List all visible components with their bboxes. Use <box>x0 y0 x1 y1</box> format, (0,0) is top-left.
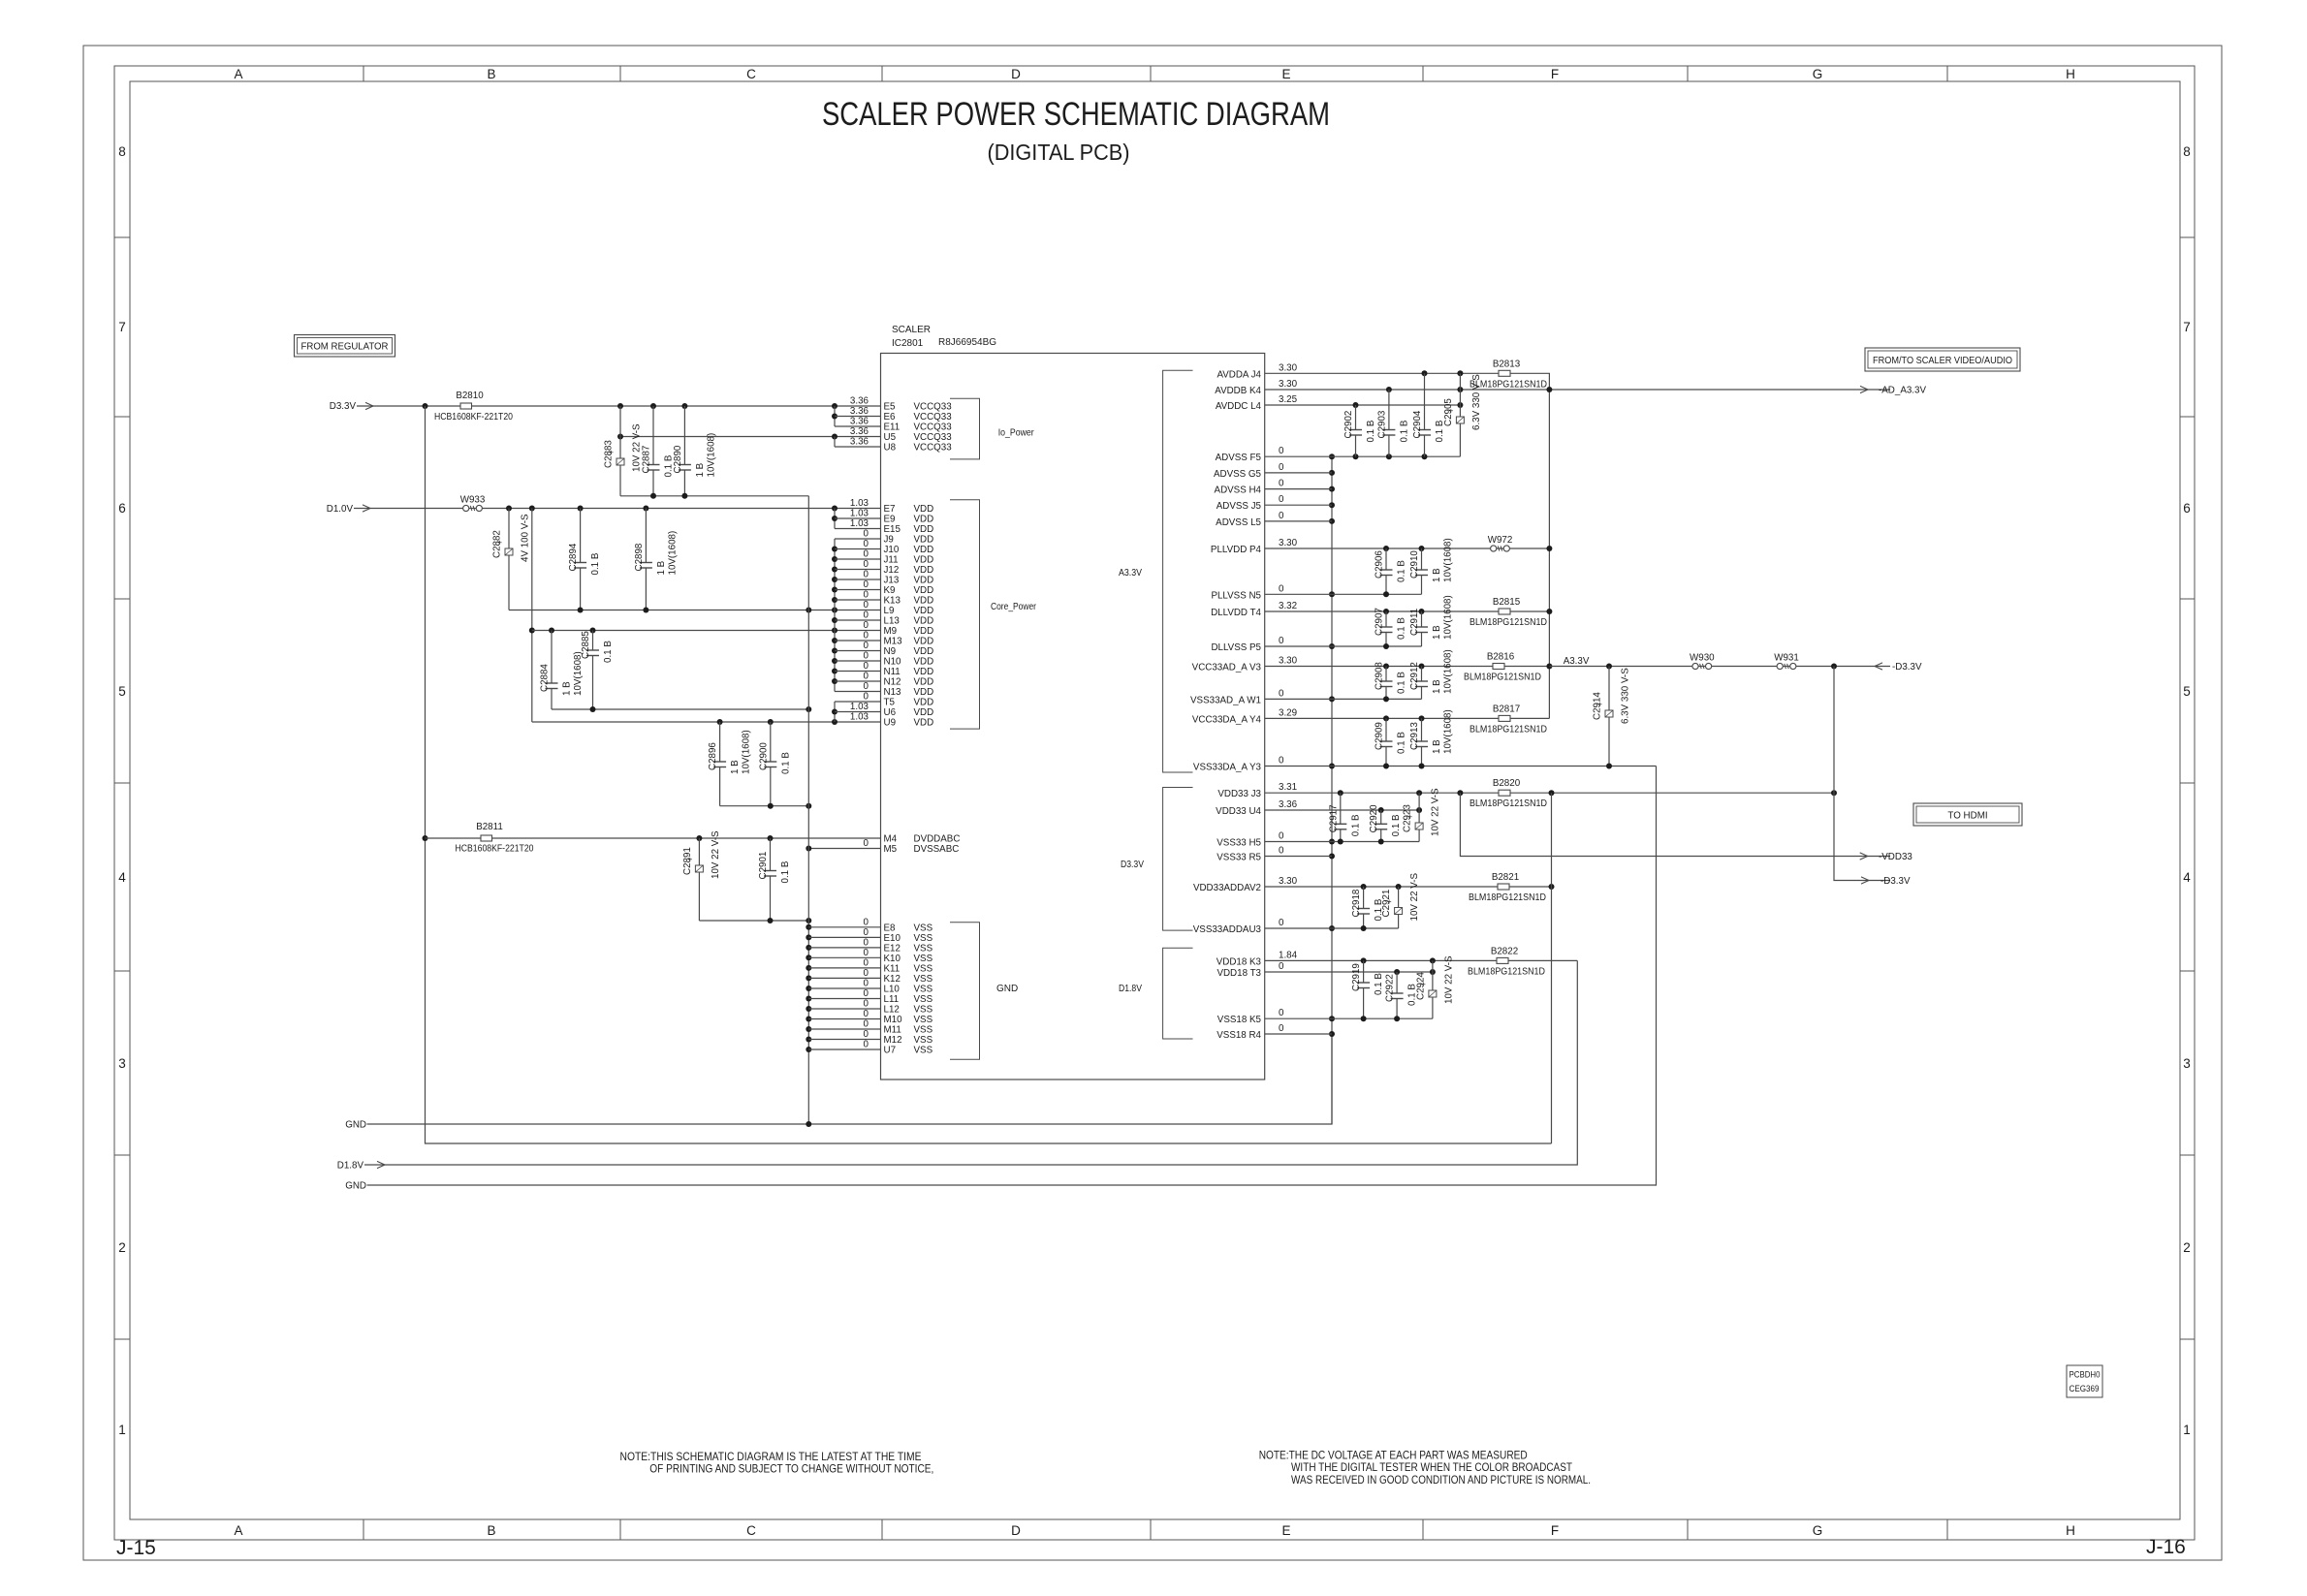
svg-text:4V 100 V-S: 4V 100 V-S <box>521 514 531 562</box>
pin group bracket Core_Power <box>950 500 980 729</box>
svg-text:0: 0 <box>864 999 869 1010</box>
svg-text:VDD: VDD <box>914 535 934 546</box>
svg-text:1 B: 1 B <box>1432 739 1442 754</box>
svg-text:2: 2 <box>118 1240 126 1255</box>
junction VSS33 R5 / VSS bus <box>1329 854 1335 860</box>
wire VDD18 T3 row <box>1265 971 1433 973</box>
svg-text:C2918: C2918 <box>1351 889 1362 917</box>
svg-text:0: 0 <box>864 672 869 682</box>
junction C2901 top <box>768 835 774 841</box>
wire E5-E6-E11 jog <box>834 406 836 426</box>
svg-text:CEG369: CEG369 <box>2070 1384 2100 1393</box>
junction J3 / D3.3V feed vertical <box>1831 790 1837 796</box>
junction C2917 top <box>1338 790 1343 796</box>
junction M12 / GND vertical <box>806 1037 811 1043</box>
junction M10 / GND vertical <box>806 1017 811 1022</box>
svg-text:E10: E10 <box>884 933 901 944</box>
svg-text:J13: J13 <box>884 576 900 586</box>
capacitor C2908 0.1 B <box>1385 667 1387 682</box>
junction C2900 bottom <box>768 803 774 809</box>
svg-text:C2891: C2891 <box>682 847 693 875</box>
junction C2924 / T3 <box>1430 969 1436 975</box>
ferrite bead B2813 <box>1499 370 1510 376</box>
svg-text:3.30: 3.30 <box>1279 538 1298 548</box>
svg-text:10V(1608): 10V(1608) <box>706 433 716 478</box>
svg-text:0: 0 <box>864 917 869 927</box>
svg-text:3.36: 3.36 <box>850 396 869 407</box>
svg-text:C2887: C2887 <box>642 446 652 474</box>
svg-text:VSS: VSS <box>914 963 933 974</box>
svg-text:BLM18PG121SN1D: BLM18PG121SN1D <box>1470 798 1547 809</box>
svg-text:C2919: C2919 <box>1351 963 1362 991</box>
capacitor C2890 1 B 10V(1608) <box>683 406 685 465</box>
svg-text:A3.3V: A3.3V <box>1564 656 1590 667</box>
junction E5 bus <box>832 403 837 409</box>
wire to pin E8 <box>808 926 880 928</box>
wire VDD33 tap to arrow <box>1460 793 1890 856</box>
junction C2911 top <box>1419 609 1425 614</box>
svg-text:0: 0 <box>1279 446 1284 456</box>
svg-text:10V 22 V-S: 10V 22 V-S <box>1409 872 1420 921</box>
junction E10 / GND vertical <box>806 934 811 940</box>
svg-text:W972: W972 <box>1488 535 1513 546</box>
wire to pin M11 <box>808 1028 880 1030</box>
svg-text:VDD: VDD <box>914 677 934 688</box>
junction L11 / GND vertical <box>806 996 811 1002</box>
svg-text:10V(1608): 10V(1608) <box>667 531 678 576</box>
svg-text:F: F <box>1551 67 1559 81</box>
junction C2898 top <box>643 506 648 512</box>
junction C2922 top <box>1394 969 1400 975</box>
svg-text:VDD33 J3: VDD33 J3 <box>1217 789 1261 799</box>
junction N10 <box>832 658 837 664</box>
svg-text:C2896: C2896 <box>708 742 718 770</box>
svg-text:6.3V 330 V-S: 6.3V 330 V-S <box>1471 374 1482 430</box>
svg-text:C2914: C2914 <box>1593 692 1603 720</box>
junction E6 <box>832 414 837 420</box>
svg-text:0.1 B: 0.1 B <box>590 552 601 575</box>
junction C2883 top <box>617 403 623 409</box>
junction D3.3V / vertical feeder <box>423 403 428 409</box>
svg-text:C2882: C2882 <box>492 530 503 558</box>
junction U7 / GND vertical <box>806 1047 811 1052</box>
junction C2919 bottom <box>1361 1016 1367 1021</box>
capacitor C2898 1 B 10V(1608) <box>645 509 647 563</box>
junction C2891 top <box>696 835 702 841</box>
junction ADVSS G5 / VSS bus <box>1329 470 1335 476</box>
wire to pin E11 <box>835 425 881 427</box>
svg-text:0: 0 <box>1279 1023 1284 1034</box>
svg-text:0.1 B: 0.1 B <box>1374 973 1384 995</box>
svg-text:HCB1608KF-221T20: HCB1608KF-221T20 <box>434 412 513 422</box>
svg-text:1 B: 1 B <box>656 560 667 575</box>
svg-text:C: C <box>746 67 756 81</box>
capacitor C2906 0.1 B <box>1385 548 1387 570</box>
svg-text:M11: M11 <box>884 1025 901 1036</box>
svg-text:BLM18PG121SN1D: BLM18PG121SN1D <box>1468 966 1545 977</box>
svg-text:VCCQ33: VCCQ33 <box>914 412 953 422</box>
svg-text:C2906: C2906 <box>1375 550 1385 579</box>
svg-text:C2903: C2903 <box>1376 410 1387 438</box>
svg-text:C2905: C2905 <box>1443 398 1454 426</box>
svg-text:5: 5 <box>118 684 126 699</box>
svg-text:VCCQ33: VCCQ33 <box>914 443 953 454</box>
junction K13 <box>832 597 837 603</box>
svg-text:1 B: 1 B <box>1432 679 1442 694</box>
wire to pin J10 <box>835 548 881 550</box>
junction C2917 bottom <box>1338 839 1343 845</box>
svg-text:VSS: VSS <box>914 974 933 985</box>
svg-text:VSS33ADDAU3: VSS33ADDAU3 <box>1193 924 1262 935</box>
svg-text:D1.0V: D1.0V <box>327 504 354 515</box>
svg-text:0: 0 <box>1279 831 1284 842</box>
capacitor C2913 1 B 10V(1608) <box>1421 718 1423 741</box>
svg-text:VSS18 R4: VSS18 R4 <box>1217 1030 1261 1041</box>
svg-text:VDD: VDD <box>914 504 934 515</box>
svg-text:VDD: VDD <box>914 657 934 668</box>
junction C2904 bottom <box>1422 454 1428 459</box>
junction L9 bus <box>832 608 837 613</box>
junction C2914 top <box>1606 664 1612 670</box>
wire to pin M10 <box>808 1018 880 1020</box>
svg-text:T5: T5 <box>884 698 896 708</box>
capacitor C2921 (electrolytic 10V 22 V-S) <box>1398 887 1400 908</box>
junction C2906 top <box>1383 546 1389 551</box>
svg-text:GND: GND <box>345 1120 366 1131</box>
junction C2902 bottom <box>1353 454 1359 459</box>
svg-text:N13: N13 <box>884 687 902 698</box>
junction C2920 bottom <box>1378 839 1384 845</box>
junction VSS18 R4 / VSS bus <box>1329 1031 1335 1037</box>
svg-text:D3.3V: D3.3V <box>1121 859 1144 870</box>
wire to pin N13 <box>835 691 881 693</box>
svg-text:VSS33 H5: VSS33 H5 <box>1217 838 1261 849</box>
wire GND rail 2 <box>367 767 1657 1186</box>
svg-text:1 B: 1 B <box>730 760 741 774</box>
junction C2924 top <box>1430 957 1436 963</box>
svg-text:7: 7 <box>2183 320 2191 334</box>
junction C2896 top <box>717 719 723 725</box>
wire VDD33 U4 row <box>1265 809 1419 811</box>
svg-text:B2815: B2815 <box>1493 597 1521 608</box>
junction N12 <box>832 678 837 684</box>
junction C2894 top <box>578 506 584 512</box>
svg-text:C2923: C2923 <box>1403 804 1413 832</box>
wire right VSS bus vertical <box>1331 456 1333 1124</box>
svg-text:3.36: 3.36 <box>850 417 869 427</box>
svg-text:0.1 B: 0.1 B <box>1391 814 1402 836</box>
wire to pin U6 <box>835 711 881 713</box>
wire M9 rail to IC <box>532 630 881 632</box>
junction C2907 bottom <box>1383 643 1389 649</box>
junction C2898 bottom <box>643 608 648 613</box>
svg-text:SCALER: SCALER <box>892 325 931 335</box>
svg-text:VSS: VSS <box>914 1015 933 1025</box>
junction C2887 top <box>650 403 656 409</box>
wire VCC33AD_A V3 row <box>1265 666 1550 668</box>
wire to pin J13 <box>835 579 881 580</box>
junction A3.3V node <box>1546 664 1552 670</box>
svg-text:R8J66954BG: R8J66954BG <box>938 337 996 348</box>
svg-text:10V(1608): 10V(1608) <box>1443 649 1454 694</box>
svg-text:3: 3 <box>2183 1056 2191 1071</box>
wire AVDDC L4 row <box>1265 404 1461 406</box>
wire to pin L12 <box>808 1008 880 1010</box>
svg-text:0: 0 <box>1279 494 1284 505</box>
junction C2887 bottom <box>650 493 656 499</box>
svg-text:VSS: VSS <box>914 994 933 1005</box>
svg-text:3.30: 3.30 <box>1279 379 1298 390</box>
wire to pin E6 <box>835 416 881 418</box>
junction D3.3V feed vertical <box>1831 664 1837 670</box>
svg-text:N12: N12 <box>884 677 901 688</box>
svg-text:VSS: VSS <box>914 954 933 964</box>
svg-text:J-15: J-15 <box>116 1537 156 1559</box>
svg-text:0: 0 <box>1279 479 1284 489</box>
svg-text:0: 0 <box>864 579 869 590</box>
svg-text:WITH THE DIGITAL TESTER WHEN T: WITH THE DIGITAL TESTER WHEN THE COLOR B… <box>1291 1460 1572 1474</box>
wire left GND vertical <box>807 496 809 1124</box>
svg-text:VDD33 U4: VDD33 U4 <box>1216 806 1261 817</box>
capacitor C2924 (electrolytic 10V 22 V-S) <box>1432 960 1434 990</box>
svg-text:C2894: C2894 <box>568 543 579 571</box>
svg-text:VCC33DA_A Y4: VCC33DA_A Y4 <box>1192 714 1262 725</box>
svg-text:1.03: 1.03 <box>850 702 869 712</box>
svg-text:OF PRINTING AND SUBJECT TO CHA: OF PRINTING AND SUBJECT TO CHANGE WITHOU… <box>649 1462 933 1476</box>
svg-text:10V(1608): 10V(1608) <box>1443 709 1454 754</box>
capacitor C2900 0.1 B <box>770 722 772 762</box>
ferrite bead B2816 <box>1493 664 1504 670</box>
svg-text:L10: L10 <box>884 985 901 995</box>
right pin group bracket A3.3V <box>1163 370 1193 772</box>
svg-text:AVDDA J4: AVDDA J4 <box>1217 369 1261 380</box>
capacitor C2919 0.1 B <box>1363 960 1365 983</box>
junction C2919 top <box>1361 957 1367 963</box>
jumper W931 <box>1777 663 1783 669</box>
ferrite bead B2815 <box>1499 609 1510 614</box>
svg-text:0.1 B: 0.1 B <box>780 752 791 774</box>
svg-text:AVDDB K4: AVDDB K4 <box>1215 386 1261 396</box>
svg-text:VDD: VDD <box>914 515 934 525</box>
svg-text:C2921: C2921 <box>1381 890 1392 918</box>
svg-text:2: 2 <box>2183 1240 2191 1255</box>
pin group bracket GND <box>950 923 980 1060</box>
capacitor C2923 (electrolytic 10V 22 V-S) <box>1418 793 1420 823</box>
svg-text:3.30: 3.30 <box>1279 362 1298 373</box>
svg-text:C2900: C2900 <box>758 742 769 770</box>
resistor B2811 <box>481 835 492 841</box>
svg-text:L12: L12 <box>884 1005 900 1016</box>
svg-text:L9: L9 <box>884 606 895 616</box>
wire to pin E12 <box>808 947 880 949</box>
svg-text:0: 0 <box>864 692 869 703</box>
wire VSS33ADDAU3 row <box>1265 927 1399 929</box>
svg-text:1 B: 1 B <box>1432 568 1442 582</box>
svg-text:D1.8V: D1.8V <box>1119 983 1142 994</box>
wire E7-E9-E15 jog <box>834 509 836 529</box>
svg-text:HCB1608KF-221T20: HCB1608KF-221T20 <box>456 844 534 855</box>
svg-text:B2822: B2822 <box>1491 946 1518 956</box>
wire cap group5 ground rail <box>699 920 808 922</box>
svg-text:0: 0 <box>864 1009 869 1019</box>
junction B2811 row <box>423 835 428 841</box>
svg-text:0: 0 <box>1279 918 1284 928</box>
junction C2913 bottom <box>1419 764 1425 769</box>
wire DLLVSS P5 row <box>1265 645 1422 647</box>
svg-text:K13: K13 <box>884 596 901 607</box>
capacitor C2907 0.1 B <box>1385 611 1387 627</box>
wire VDD33ADDAV2 row <box>1265 886 1552 888</box>
svg-text:VDD: VDD <box>914 667 934 677</box>
svg-text:0: 0 <box>864 559 869 570</box>
svg-text:E6: E6 <box>884 412 897 422</box>
wire VSS18 R4 stub <box>1265 1033 1332 1035</box>
svg-text:ADVSS G5: ADVSS G5 <box>1214 469 1262 480</box>
svg-text:6: 6 <box>2183 501 2191 516</box>
svg-text:VCCQ33: VCCQ33 <box>914 402 953 413</box>
wire PLLVSS N5 row <box>1265 593 1422 595</box>
svg-text:VDD: VDD <box>914 524 934 535</box>
svg-text:0: 0 <box>864 529 869 540</box>
junction C2885 top <box>590 628 596 634</box>
svg-text:0: 0 <box>864 1040 869 1050</box>
junction J12 <box>832 567 837 573</box>
svg-text:DLLVDD T4: DLLVDD T4 <box>1211 608 1261 618</box>
junction C2890 bottom <box>681 493 687 499</box>
svg-text:D: D <box>1011 1523 1021 1538</box>
junction B2815 out / bead vertical <box>1546 609 1552 614</box>
svg-text:3.36: 3.36 <box>850 406 869 417</box>
wire to pin K13 <box>835 599 881 601</box>
junction E8 / GND vertical <box>806 924 811 930</box>
svg-text:DVDDABC: DVDDABC <box>914 834 961 845</box>
svg-text:VDD: VDD <box>914 626 934 637</box>
svg-text:0: 0 <box>1279 756 1284 767</box>
junction C2921 top <box>1396 884 1402 890</box>
capacitor C2891 (electrolytic 10V 22 V-S) <box>698 838 700 865</box>
junction VSS18 K5 / VSS bus <box>1329 1016 1335 1021</box>
svg-text:J12: J12 <box>884 565 900 576</box>
svg-text:WAS RECEIVED IN GOOD CONDITION: WAS RECEIVED IN GOOD CONDITION AND PICTU… <box>1291 1473 1591 1486</box>
junction C2902 top <box>1353 402 1359 408</box>
wire VSS33 H5 row <box>1265 841 1419 843</box>
svg-text:C2910: C2910 <box>1409 550 1420 579</box>
svg-text:E15: E15 <box>884 524 901 535</box>
junction GND rail / left GND vertical <box>806 1121 811 1127</box>
svg-text:VSS33 R5: VSS33 R5 <box>1217 853 1261 863</box>
IC U1 SCALER IC2801 R8J66954BG outline <box>881 354 1265 1080</box>
svg-text:N9: N9 <box>884 646 897 657</box>
svg-text:VSS33DA_A Y3: VSS33DA_A Y3 <box>1193 763 1262 773</box>
svg-text:6: 6 <box>118 501 126 516</box>
svg-text:SCALER POWER SCHEMATIC DIAGRAM: SCALER POWER SCHEMATIC DIAGRAM <box>822 96 1330 133</box>
svg-text:3.36: 3.36 <box>1279 799 1298 810</box>
junction N11 <box>832 669 837 674</box>
svg-text:E12: E12 <box>884 943 901 954</box>
svg-text:-VDD33: -VDD33 <box>1879 852 1912 862</box>
svg-text:G: G <box>1813 1523 1823 1538</box>
svg-text:0: 0 <box>864 641 869 651</box>
svg-text:PCBDH0: PCBDH0 <box>2070 1370 2101 1380</box>
junction ADVSS L5 / VSS bus <box>1329 518 1335 524</box>
svg-text:BLM18PG121SN1D: BLM18PG121SN1D <box>1470 724 1547 735</box>
junction E7 bus <box>832 506 837 512</box>
svg-text:C2917: C2917 <box>1328 804 1339 832</box>
junction branch on C2883 lead <box>617 434 623 440</box>
wire AVDDB K4 row to AD_A3.3V <box>1265 389 1890 391</box>
svg-text:VDD: VDD <box>914 576 934 586</box>
wire to pin J12 <box>835 569 881 571</box>
svg-text:VSS33AD_A W1: VSS33AD_A W1 <box>1190 695 1261 705</box>
wire D3.3V rail to IC pin E5 <box>357 405 881 407</box>
junction DLLVSS P5 / VSS bus <box>1329 643 1335 649</box>
svg-text:1.03: 1.03 <box>850 712 869 723</box>
svg-text:TO HDMI: TO HDMI <box>1947 811 1987 822</box>
svg-text:C2922: C2922 <box>1385 974 1396 1002</box>
svg-text:0: 0 <box>864 838 869 849</box>
svg-text:0: 0 <box>864 937 869 948</box>
wire D3.3V vertical B2820-B2821 <box>1551 793 1553 1143</box>
svg-text:K12: K12 <box>884 974 901 985</box>
junction C2909 top <box>1383 715 1389 721</box>
right pin group bracket D1.8V <box>1163 948 1193 1039</box>
svg-text:C2901: C2901 <box>758 852 769 880</box>
wire B2811 rail to pin M4 <box>426 837 881 839</box>
FROM/TO SCALER VIDEO/AUDIO box <box>1865 348 2020 371</box>
svg-text:10V 22 V-S: 10V 22 V-S <box>1443 955 1454 1004</box>
wire 1.0V feeder vertical <box>531 509 533 723</box>
svg-text:8: 8 <box>2183 144 2191 159</box>
svg-text:D3.3V: D3.3V <box>330 401 357 412</box>
svg-text:E7: E7 <box>884 504 896 515</box>
resistor B2810 <box>460 403 472 409</box>
svg-text:VDD33ADDAV2: VDD33ADDAV2 <box>1193 883 1261 893</box>
right pin group bracket D3.3V <box>1163 788 1193 931</box>
svg-text:B2817: B2817 <box>1493 704 1520 714</box>
PCB id box PCBDH0 CEG369 <box>2067 1365 2102 1397</box>
svg-text:0.1 B: 0.1 B <box>1366 420 1376 442</box>
svg-text:0: 0 <box>864 631 869 642</box>
junction rail / left GND vertical <box>806 706 811 712</box>
svg-text:L11: L11 <box>884 994 900 1005</box>
svg-text:0: 0 <box>864 948 869 958</box>
svg-text:0.1 B: 0.1 B <box>1397 732 1407 754</box>
wire T5-U6-U9 jog <box>834 702 836 722</box>
wire to pin N11 <box>835 671 881 673</box>
wire to pin J9 <box>835 538 881 540</box>
svg-text:VDD: VDD <box>914 616 934 627</box>
svg-text:1.03: 1.03 <box>850 509 869 519</box>
capacitor C2887 0.1 B <box>652 406 654 465</box>
wire to pin L13 <box>835 619 881 621</box>
svg-text:3.30: 3.30 <box>1279 656 1298 667</box>
svg-text:E: E <box>1281 67 1290 81</box>
svg-text:VDD: VDD <box>914 555 934 566</box>
svg-text:A: A <box>234 1523 242 1538</box>
junction C2923 top <box>1416 790 1422 796</box>
capacitor C2912 1 B 10V(1608) <box>1421 667 1423 682</box>
capacitor C2883 (electrolytic 10V 22 V-S) <box>619 406 621 458</box>
svg-text:4: 4 <box>2183 870 2191 885</box>
svg-text:0: 0 <box>864 610 869 621</box>
ferrite bead B2822 <box>1497 957 1508 963</box>
svg-text:C2924: C2924 <box>1415 972 1426 1000</box>
svg-text:GND: GND <box>996 984 1018 994</box>
svg-text:PLLVSS N5: PLLVSS N5 <box>1211 590 1261 601</box>
junction K11 / GND vertical <box>806 965 811 971</box>
svg-text:M4: M4 <box>884 834 898 845</box>
svg-text:E11: E11 <box>884 422 901 433</box>
